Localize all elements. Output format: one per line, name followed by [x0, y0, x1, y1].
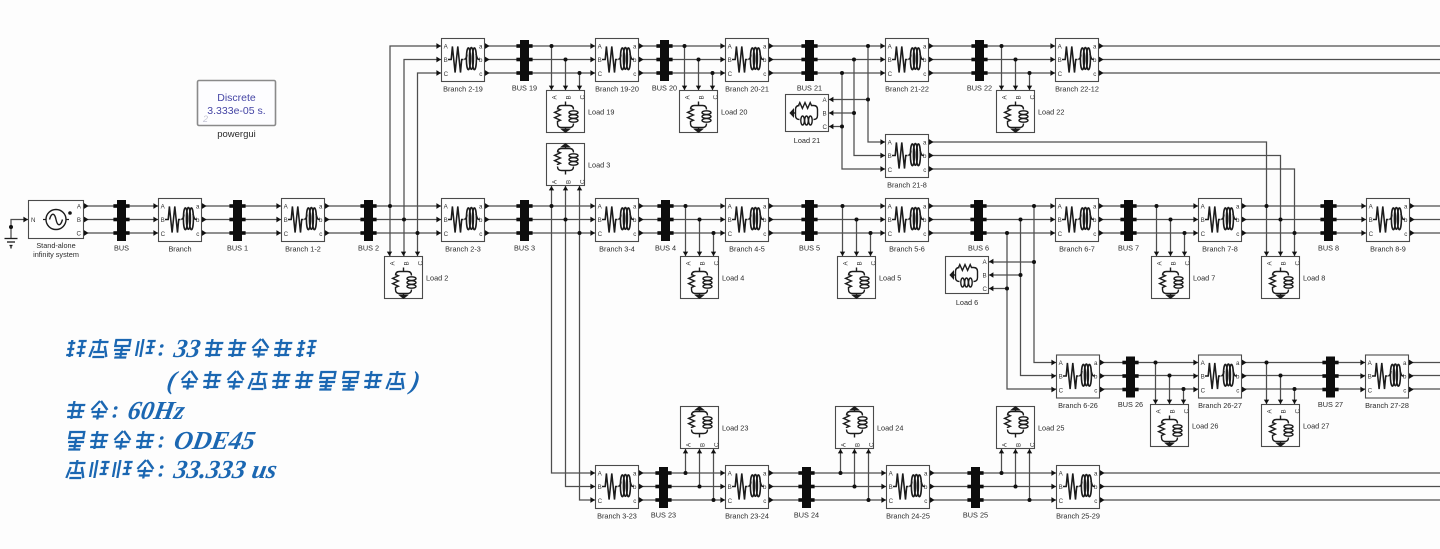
branch block Branch 6-26 — [1051, 355, 1104, 410]
bus bar BUS 8 — [1318, 200, 1339, 253]
svg-text:Load 22: Load 22 — [1038, 108, 1064, 117]
node junctions Load 3 risers on mid bus — [550, 204, 582, 235]
svg-text:Load 21: Load 21 — [794, 136, 820, 145]
wire Load 20 phase B drop — [698, 60, 700, 91]
branch block Branch 5-6 — [880, 199, 933, 254]
wire Load 24 phase A riser — [840, 449, 842, 473]
wire Load 5 phase A drop — [842, 206, 844, 256]
bus bar BUS 21 — [797, 40, 822, 93]
wire Load 7 phase B drop — [1170, 220, 1172, 257]
node junctions Load 21 / Branch 21-8 risers on top bus — [840, 44, 870, 75]
node junctions BUS2 risers on mid bus — [388, 204, 420, 235]
branch block Branch 2-19 — [436, 39, 489, 94]
wire Load 27 phase C drop — [1294, 389, 1296, 404]
svg-text:BUS 24: BUS 24 — [794, 511, 819, 520]
svg-text:BUS 22: BUS 22 — [967, 84, 992, 93]
bus bar BUS 6 — [968, 200, 989, 253]
svg-text:Load 8: Load 8 — [1303, 274, 1325, 283]
branch block Branch 4-5 — [720, 199, 773, 254]
svg-text:3.333e-05 s.: 3.333e-05 s. — [207, 105, 265, 117]
node junctions Load 21 ports on risers — [840, 98, 870, 129]
svg-text:BUS 4: BUS 4 — [655, 244, 676, 253]
svg-text:Branch 8-9: Branch 8-9 — [1370, 245, 1406, 254]
load block Load 25 (flipped, ports on bottom) — [997, 406, 1065, 453]
svg-text:Branch 24-25: Branch 24-25 — [886, 512, 930, 521]
svg-text:BUS 20: BUS 20 — [652, 84, 677, 93]
branch block Branch 1-2 — [276, 199, 329, 254]
wire Load 4 phase B drop — [699, 220, 701, 257]
branch block Branch 6-7 — [1050, 199, 1103, 254]
wire Load 26 phase B drop — [1169, 376, 1171, 405]
svg-text:Branch 7-8: Branch 7-8 — [1202, 245, 1238, 254]
wire Load 21 C to riser — [829, 126, 842, 128]
wire 3-phase Branch 26-27 to Branch 27-28 (row 26) — [1242, 363, 1365, 390]
wire 3-phase Branch 8-9 to right edge (mid row) — [1410, 206, 1440, 233]
svg-text:Load 27: Load 27 — [1303, 422, 1329, 431]
wire Load 25 phase B riser — [1015, 449, 1017, 487]
wire 3-phase Branch 19-20 to Branch 20-21 (top row) — [639, 46, 725, 73]
svg-text:BUS 27: BUS 27 — [1318, 400, 1343, 409]
wire Load 20 phase C drop — [712, 73, 714, 90]
wire Load 6 C to riser — [989, 288, 1007, 290]
wire 3-phase Branch 3-4 to Branch 4-5 (mid row) — [639, 206, 725, 233]
svg-text:BUS 7: BUS 7 — [1118, 244, 1139, 253]
wire Load 19 phase B drop — [565, 60, 567, 91]
svg-text:BUS 1: BUS 1 — [227, 244, 248, 253]
bus bar BUS 1 — [227, 200, 248, 253]
svg-text:BUS 5: BUS 5 — [799, 244, 820, 253]
svg-text:Branch 20-21: Branch 20-21 — [725, 85, 769, 94]
svg-text:powergui: powergui — [217, 129, 256, 140]
wire Load 4 phase C drop — [713, 233, 715, 256]
svg-text:Stand-alone: Stand-alone — [36, 241, 75, 250]
svg-text:BUS 2: BUS 2 — [358, 244, 379, 253]
bus bar BUS 26 — [1118, 357, 1143, 410]
svg-text:Branch 25-29: Branch 25-29 — [1056, 512, 1100, 521]
branch block Branch 19-20 — [590, 39, 643, 94]
svg-text:Load 23: Load 23 — [722, 424, 748, 433]
branch block Branch 21-8 — [880, 135, 933, 190]
branch block Branch 20-21 — [720, 39, 773, 94]
wire riser phase C: mid bus C down to Branch 6-26 input C — [1007, 233, 1056, 389]
wire Load 26 phase C drop — [1183, 389, 1185, 404]
svg-text:Branch 21-8: Branch 21-8 — [887, 181, 927, 190]
node junctions Load 19 taps on top bus — [550, 44, 582, 75]
svg-text:Branch: Branch — [168, 245, 191, 254]
load block Load 22 (3-phase parallel RL load, ports on top) — [997, 86, 1065, 133]
load block Load 8 (3-phase parallel RL load, ports on top) — [1262, 252, 1326, 299]
wire Load 27 phase B drop — [1280, 376, 1282, 405]
wire riser phase C: Branch 2-19 input down to BUS 2 / Load 2 — [418, 73, 442, 256]
branch block Branch 26-27 — [1193, 355, 1246, 410]
svg-text:BUS: BUS — [114, 244, 129, 253]
svg-text:BUS 3: BUS 3 — [514, 244, 535, 253]
branch block Branch 8-9 — [1361, 199, 1414, 254]
svg-text:Load 6: Load 6 — [956, 298, 978, 307]
wire Branch 21-8 output c across and down to mid bus C / Load 8 — [929, 169, 1295, 256]
svg-text:Branch 6-26: Branch 6-26 — [1058, 401, 1098, 410]
svg-text:Load 20: Load 20 — [721, 108, 747, 117]
node junctions Load 5 taps on mid bus — [841, 204, 873, 235]
wire Load 19 phase A drop — [551, 46, 553, 90]
svg-text:Branch 26-27: Branch 26-27 — [1198, 401, 1242, 410]
wire Load 25 phase C riser — [1029, 449, 1031, 500]
wire 3-phase Branch 4-5 to Branch 5-6 (mid row) — [769, 206, 885, 233]
svg-text:2: 2 — [202, 114, 208, 124]
bus bar BUS 27 — [1318, 357, 1343, 410]
svg-text:Branch 3-4: Branch 3-4 — [599, 245, 635, 254]
branch block Branch 23-24 — [720, 466, 773, 521]
wire Load 7 phase C drop — [1184, 233, 1186, 256]
svg-text:Load 19: Load 19 — [588, 108, 614, 117]
svg-text:B: B — [77, 217, 81, 224]
bus bar BUS 22 — [967, 40, 992, 93]
svg-text:Branch 27-28: Branch 27-28 — [1365, 401, 1409, 410]
bus bar BUS 23 — [651, 467, 676, 520]
wire 3-phase Branch 6-26 to Branch 26-27 (row 26) — [1100, 363, 1198, 390]
load block Load 26 (3-phase parallel RL load, ports on top) — [1151, 400, 1219, 447]
wire riser phase B: mid bus B down to Branch 6-26 input B — [1021, 220, 1057, 376]
wire 3-phase Branch 6-7 to Branch 7-8 (mid row) — [1099, 206, 1198, 233]
wire 3-phase Branch 21-22 to Branch 22-12 (top row) — [929, 46, 1055, 73]
load block Load 27 (3-phase parallel RL load, ports on top) — [1262, 400, 1330, 447]
svg-text:Load 26: Load 26 — [1192, 422, 1218, 431]
svg-text:N: N — [31, 217, 35, 224]
svg-text:BUS 19: BUS 19 — [512, 84, 537, 93]
load block Load 23 (flipped, ports on bottom) — [681, 406, 749, 453]
svg-text:Branch 22-12: Branch 22-12 — [1055, 85, 1099, 94]
wire riser phase B: Branch 2-19 input down to BUS 2 / Load 2 — [404, 60, 441, 257]
load block Load 7 (3-phase parallel RL load, ports on top) — [1152, 252, 1216, 299]
branch block Branch 2-3 — [436, 199, 489, 254]
wire Load 22 phase B drop — [1015, 60, 1017, 91]
wire 3-phase Branch 1-2 to Branch 2-3 (mid row) — [325, 206, 441, 233]
wire Load 5 phase C drop — [870, 233, 872, 256]
wire Load 23 phase B riser — [699, 449, 701, 487]
wire Load 24 phase B riser — [854, 449, 856, 487]
wire Load 5 phase B drop — [856, 220, 858, 257]
branch block Branch 25-29 — [1051, 466, 1104, 521]
bus bar BUS 20 — [652, 40, 677, 93]
bus bar BUS 25 — [963, 467, 988, 520]
branch block Branch 22-12 — [1050, 39, 1103, 94]
svg-text:C: C — [77, 231, 82, 238]
load block Load 20 (3-phase parallel RL load, ports on top) — [680, 86, 748, 133]
wire riser phase B: Load 3 down through mid bus B to Branch 3-23 input — [566, 186, 596, 487]
wire Branch 21-8 output a across and down to mid bus A / Load 8 — [929, 142, 1267, 256]
wire 3-phase Branch 2-19 to Branch 19-20 (top row) — [485, 46, 595, 73]
wire 3-phase Branch 22-12 to right edge (top row) — [1099, 46, 1440, 73]
wire Load 23 phase C riser — [713, 449, 715, 500]
wire Load 7 phase A drop — [1156, 206, 1158, 256]
svg-text:Branch 4-5: Branch 4-5 — [729, 245, 765, 254]
svg-text:Load 24: Load 24 — [877, 424, 903, 433]
annotation line 4: solver ODE45 — [66, 426, 258, 455]
wire Load 23 phase A riser — [685, 449, 687, 473]
svg-text:Branch 5-6: Branch 5-6 — [889, 245, 925, 254]
svg-text:BUS 6: BUS 6 — [968, 244, 989, 253]
wire Load 6 B to riser — [989, 274, 1021, 276]
source block: Stand-alone infinity system (three-phase source) — [23, 201, 88, 260]
wire 3-phase Branch 2-3 to Branch 3-4 (mid row) — [485, 206, 595, 233]
wire riser phase C: top bus to Load 21 C and Branch 21-8 C — [842, 73, 885, 169]
wire Load 22 phase A drop — [1001, 46, 1003, 90]
wire Load 27 phase A drop — [1266, 363, 1268, 405]
annotation line 5: simulation step 33.333 us — [65, 455, 279, 484]
svg-text:BUS 25: BUS 25 — [963, 511, 988, 520]
bus bar BUS 7 — [1118, 200, 1139, 253]
wire 3-phase Branch 24-25 to Branch 25-29 (bottom row) — [930, 473, 1056, 500]
load block Load 5 (3-phase parallel RL load, ports on top) — [838, 252, 902, 299]
svg-text:Load 4: Load 4 — [722, 274, 744, 283]
wire 3-phase Branch 3-23 to Branch 23-24 (bottom row) — [639, 473, 725, 500]
wire 3-phase Branch 20-21 to Branch 21-22 (top row) — [769, 46, 885, 73]
branch block Branch 27-28 — [1360, 355, 1413, 410]
load block Load 24 (flipped, ports on bottom) — [836, 406, 904, 453]
svg-text:Load 25: Load 25 — [1038, 424, 1064, 433]
node junctions Load 4 taps on mid bus — [684, 204, 716, 235]
svg-text:60Hz: 60Hz — [126, 396, 188, 425]
wire Load 21 B to riser — [829, 112, 854, 114]
wire riser phase A: mid bus A down to Branch 6-26 input A — [1034, 206, 1056, 363]
svg-text:33.333 us: 33.333 us — [171, 455, 280, 484]
svg-text:Branch 6-7: Branch 6-7 — [1059, 245, 1095, 254]
wire 3-phase Branch 7-8 to Branch 8-9 (mid row) — [1242, 206, 1366, 233]
svg-text:Branch 1-2: Branch 1-2 — [285, 245, 321, 254]
branch block Branch 3-4 — [590, 199, 643, 254]
node junctions Branch 6-26 risers on mid bus — [1005, 204, 1036, 235]
load block Load 21 (rotated, ports on right) — [786, 95, 834, 146]
svg-text:Load 2: Load 2 — [426, 274, 448, 283]
wire 3-phase source to BUS (mid row) — [84, 206, 158, 233]
svg-text:Branch 19-20: Branch 19-20 — [595, 85, 639, 94]
svg-text:BUS 23: BUS 23 — [651, 511, 676, 520]
branch block Branch 7-8 — [1193, 199, 1246, 254]
ground symbol — [5, 239, 18, 249]
wire Load 6 A to riser — [989, 261, 1034, 263]
wire Load 4 phase A drop — [685, 206, 687, 256]
branch block Branch — [153, 199, 206, 254]
wire 3-phase Branch 5-6 to Branch 6-7 (mid row) — [929, 206, 1055, 233]
wire Load 24 phase C riser — [868, 449, 870, 500]
svg-text:Discrete: Discrete — [217, 92, 256, 104]
load block Load 2 (3-phase parallel RL load, ports on top) — [385, 252, 449, 299]
wire 3-phase Branch 23-24 to Branch 24-25 (bottom row) — [769, 473, 886, 500]
svg-text:Load 7: Load 7 — [1193, 274, 1215, 283]
node junctions Load 20 taps on top bus — [683, 44, 715, 75]
branch block Branch 3-23 — [590, 466, 643, 521]
node junctions Load 24 taps on bottom bus — [839, 471, 871, 502]
load block Load 4 (3-phase parallel RL load, ports on top) — [681, 252, 745, 299]
node junctions Load 6 ports on risers — [1005, 260, 1036, 291]
node junctions Load 22 taps on top bus — [1000, 44, 1032, 75]
wire 3-phase Branch 27-28 to right edge (row 26) — [1409, 363, 1440, 390]
svg-text:Branch 3-23: Branch 3-23 — [597, 512, 637, 521]
wire 3-phase Branch 25-29 to right edge (bottom row) — [1100, 473, 1440, 500]
svg-text:Branch 21-22: Branch 21-22 — [885, 85, 929, 94]
wire Load 20 phase A drop — [684, 46, 686, 90]
wire Branch 21-8 output b across and down to mid bus B / Load 8 — [929, 156, 1281, 257]
node junctions Load 26 taps on row-26 bus — [1154, 361, 1186, 392]
wire 3-phase Branch to Branch 1-2 (mid row) — [202, 206, 281, 233]
svg-text:Load 5: Load 5 — [879, 274, 901, 283]
load block Load 3 (flipped, ports on bottom) — [547, 143, 611, 190]
node junctions Branch 21-8 outputs on mid bus / Load 8 — [1265, 204, 1297, 235]
bus bar BUS — [113, 200, 129, 253]
node junctions Load 7 taps on mid bus — [1155, 204, 1187, 235]
svg-text:infinity system: infinity system — [33, 250, 79, 259]
bus bar BUS 3 — [514, 200, 535, 253]
annotation line 3: frequency 60Hz — [65, 396, 188, 425]
bus bar BUS 5 — [799, 200, 820, 253]
svg-text:Load 3: Load 3 — [588, 161, 610, 170]
node junctions Load 23 taps on bottom bus — [684, 471, 716, 502]
bus bar BUS 2 — [358, 200, 379, 253]
wire riser phase C: Load 3 down through mid bus C to Branch 3-23 input — [580, 186, 596, 500]
wire riser phase B: top bus to Load 21 B and Branch 21-8 B — [854, 60, 885, 156]
wire source N to ground — [11, 220, 28, 239]
node junction ground wire — [9, 225, 13, 229]
wire Load 22 phase C drop — [1029, 73, 1031, 90]
svg-text:BUS 26: BUS 26 — [1118, 400, 1143, 409]
wire riser phase A: Branch 2-19 input down to BUS 2 / Load 2 — [390, 46, 441, 256]
load block Load 19 (3-phase parallel RL load, ports on top) — [547, 86, 615, 133]
annotation line 1: topology name 33-node distribution network — [65, 334, 318, 363]
svg-text:Branch 23-24: Branch 23-24 — [725, 512, 769, 521]
bus bar BUS 4 — [655, 200, 676, 253]
svg-text:BUS 21: BUS 21 — [797, 84, 822, 93]
wire riser phase A: top bus to Load 21 A and Branch 21-8 A — [868, 46, 885, 142]
load block Load 6 (rotated, ports on right) — [946, 257, 994, 308]
node junctions Load 25 taps on bottom bus — [1000, 471, 1032, 502]
wire Load 19 phase C drop — [579, 73, 581, 90]
annotation line 2: data source note — [165, 366, 423, 395]
svg-text:BUS 8: BUS 8 — [1318, 244, 1339, 253]
wire Load 25 phase A riser — [1001, 449, 1003, 473]
wire Load 21 A to riser — [829, 99, 868, 101]
svg-text:Branch 2-19: Branch 2-19 — [443, 85, 483, 94]
branch block Branch 24-25 — [881, 466, 934, 521]
svg-text:33: 33 — [171, 334, 203, 363]
wire riser phase A: Load 3 down through mid bus A to Branch 3-23 input — [552, 186, 596, 473]
node junctions Load 27 taps on row-26 bus — [1265, 361, 1297, 392]
powergui block — [198, 81, 276, 141]
bus bar BUS 24 — [794, 467, 819, 520]
bus bar BUS 19 — [512, 40, 537, 93]
wire Load 26 phase A drop — [1155, 363, 1157, 405]
svg-text:ODE45: ODE45 — [172, 426, 258, 455]
svg-text:Branch 2-3: Branch 2-3 — [445, 245, 481, 254]
branch block Branch 21-22 — [880, 39, 933, 94]
